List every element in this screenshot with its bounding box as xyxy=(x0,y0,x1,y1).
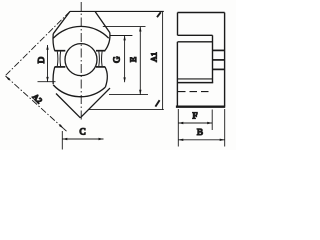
side view right edge xyxy=(224,13,226,107)
D extension line bottom xyxy=(38,81,56,83)
B right extension line xyxy=(224,109,226,147)
weld projection tab line 3 xyxy=(213,68,225,70)
F/B left extension line xyxy=(177,109,179,147)
side view groove upper line xyxy=(178,34,213,36)
A2 arrow lower xyxy=(59,124,64,128)
A1 extension line bottom xyxy=(89,109,164,111)
B arrow right xyxy=(220,139,225,141)
centerline of front view (vertical dash-dot) xyxy=(80,2,82,122)
svg-text:E: E xyxy=(128,57,138,62)
svg-text:A1: A1 xyxy=(150,52,159,62)
F arrow left xyxy=(178,122,183,124)
left waist bottom bar xyxy=(55,66,66,68)
svg-text:D: D xyxy=(36,56,46,63)
F arrow right xyxy=(207,122,212,124)
right waist concave curve outer xyxy=(101,52,104,67)
side view left edge upper xyxy=(177,13,179,36)
top-left edge xyxy=(53,11,70,33)
top-left corner hook curve xyxy=(53,34,55,51)
right waist top bar xyxy=(96,50,105,52)
G dimension line xyxy=(124,36,126,83)
bottom chamfer arc xyxy=(53,85,105,97)
A1 dimension line xyxy=(162,11,164,109)
side view groove lower line xyxy=(178,41,213,43)
right waist bottom bar xyxy=(96,66,105,68)
top-right edge xyxy=(95,11,110,32)
A1 oblique tick bottom xyxy=(155,100,159,106)
svg-text:G: G xyxy=(111,56,121,63)
A2 arrow upper xyxy=(6,76,11,80)
top chamfer arc xyxy=(53,26,108,38)
bottom-right 45deg edge xyxy=(80,88,110,118)
left waist concave curve inner xyxy=(59,52,62,67)
G arrow bottom xyxy=(123,77,125,82)
D dimension line xyxy=(47,45,49,82)
G arrow top xyxy=(123,35,125,40)
A1 oblique tick top xyxy=(157,12,161,17)
side view inner vertical xyxy=(212,35,214,82)
C arrow left xyxy=(62,138,67,140)
bottom-right corner hook curve xyxy=(105,67,107,87)
left waist concave curve outer xyxy=(56,52,59,67)
E extension line top xyxy=(103,26,146,28)
C dimension line xyxy=(62,138,103,140)
E dimension line xyxy=(139,27,141,95)
G extension line top xyxy=(111,35,133,37)
svg-text:B: B xyxy=(197,127,203,137)
side view step line upper xyxy=(177,78,212,80)
side view bottom thick edge xyxy=(176,105,225,107)
C arrow right xyxy=(99,138,104,140)
weld projection tab line 1 xyxy=(213,49,225,51)
D arrow top xyxy=(46,45,48,50)
right waist concave curve inner xyxy=(98,52,101,67)
E extension line bottom xyxy=(109,94,148,96)
A2 dimension line solid tail xyxy=(64,129,67,132)
D arrow bottom xyxy=(46,77,48,82)
svg-text:F: F xyxy=(192,110,197,120)
F middle extension line xyxy=(211,110,213,131)
bottom-left 45deg edge xyxy=(56,94,80,118)
side view top edge xyxy=(178,12,225,14)
E arrow bottom xyxy=(139,90,141,95)
side view left edge lower xyxy=(176,42,178,107)
weld projection tab line 2 xyxy=(213,59,225,61)
A2 extension line (diagonal dash-dot) xyxy=(5,11,70,76)
bottom-left corner hook curve xyxy=(53,67,55,84)
E arrow top xyxy=(139,27,141,32)
B dimension line xyxy=(178,139,224,141)
F dimension line xyxy=(178,122,212,124)
B arrow left xyxy=(178,139,183,141)
nut top flat edge plus A1 extension line xyxy=(70,10,164,12)
thread hole circle xyxy=(65,44,97,76)
A2 dimension line (diagonal dash-dot) xyxy=(6,76,64,129)
top-right corner hook curve xyxy=(105,33,110,51)
svg-text:C: C xyxy=(80,126,86,136)
svg-text:A2: A2 xyxy=(31,92,44,105)
side view step line lower xyxy=(177,82,213,84)
hidden thread dashed line xyxy=(178,91,211,93)
C extension line left xyxy=(61,131,63,150)
left waist top bar xyxy=(55,50,66,52)
